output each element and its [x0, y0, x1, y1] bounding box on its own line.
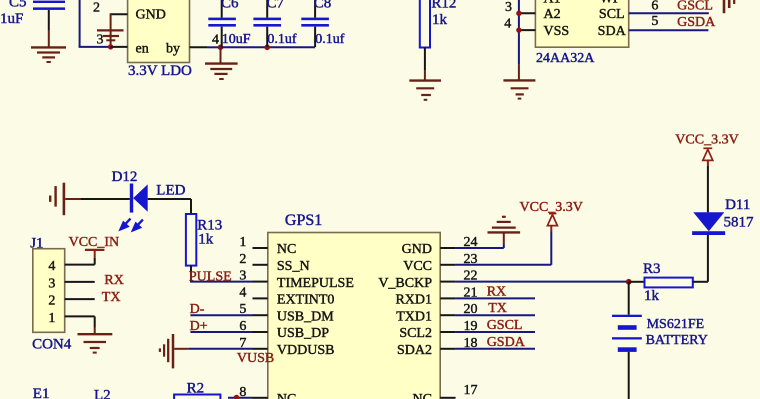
- svg-text:4: 4: [48, 259, 55, 274]
- svg-text:EXTINT0: EXTINT0: [277, 293, 335, 308]
- ground up at pin24: [488, 217, 521, 233]
- svg-text:GSDA: GSDA: [487, 335, 526, 350]
- ground on LDO pin2: [97, 30, 124, 40]
- pin 17 stub: [440, 397, 455, 399]
- svg-text:J1: J1: [30, 236, 43, 252]
- svg-text:GPS1: GPS1: [285, 212, 322, 229]
- svg-text:1k: 1k: [644, 288, 660, 304]
- wire R13 to TIMEPULSE: [190, 266, 192, 282]
- svg-text:SDA2: SDA2: [397, 343, 432, 358]
- svg-text:VUSB: VUSB: [237, 351, 274, 366]
- wire D11 to VCC_3.3V: [707, 160, 709, 212]
- node junction en/gnd: [108, 44, 113, 49]
- svg-text:BATTERY: BATTERY: [646, 333, 708, 348]
- svg-text:2: 2: [239, 252, 246, 267]
- svg-text:USB_DM: USB_DM: [277, 309, 334, 324]
- wire net GSCL right: [456, 331, 535, 333]
- svg-text:6: 6: [651, 0, 658, 13]
- svg-text:1uF: 1uF: [0, 11, 23, 27]
- svg-text:VCC_IN: VCC_IN: [69, 235, 120, 250]
- ground below J1: [78, 334, 113, 352]
- wire en pin stub: [111, 46, 128, 48]
- svg-text:L2: L2: [94, 388, 111, 399]
- wire net VUSB to pin7: [174, 348, 252, 350]
- svg-text:A2: A2: [544, 7, 561, 22]
- ground below 24AA32A: [503, 80, 535, 98]
- node junction pin4: [516, 27, 521, 32]
- svg-text:1: 1: [48, 311, 55, 326]
- svg-text:SCL2: SCL2: [399, 326, 432, 341]
- wire net D+: [190, 331, 252, 333]
- wire net RX: [456, 297, 535, 299]
- svg-text:2: 2: [48, 294, 55, 309]
- svg-text:VCC_3.3V: VCC_3.3V: [520, 200, 583, 215]
- svg-text:RX: RX: [104, 273, 123, 288]
- svg-text:R12: R12: [431, 0, 456, 12]
- node junction pin3: [516, 11, 521, 16]
- svg-text:R3: R3: [643, 261, 661, 277]
- node junction at C7: [264, 45, 270, 51]
- power VCC_3.3V right: [675, 133, 738, 161]
- svg-text:NC: NC: [277, 242, 296, 257]
- svg-text:0.1uf: 0.1uf: [315, 32, 345, 47]
- svg-text:by: by: [166, 41, 180, 56]
- wire bus C6-C7-C8: [221, 46, 316, 48]
- svg-text:V_BCKP: V_BCKP: [378, 276, 432, 291]
- pin 22 stub: [440, 281, 455, 283]
- svg-text:GND: GND: [136, 8, 166, 23]
- svg-text:C6: C6: [221, 0, 239, 11]
- wire net D-: [190, 314, 252, 316]
- svg-text:3: 3: [48, 276, 55, 291]
- svg-text:A1: A1: [544, 0, 561, 7]
- wire R3 to D11: [707, 235, 709, 282]
- ground sideways at pin7: [160, 334, 173, 368]
- svg-text:3.3V LDO: 3.3V LDO: [128, 63, 192, 79]
- wire SDA pin5 net GSDA: [629, 29, 709, 31]
- wire pin22 V_BCKP to R3: [456, 281, 629, 283]
- wire pin8: [228, 397, 253, 399]
- resistor R2: [174, 381, 220, 399]
- svg-text:GSCL: GSCL: [487, 318, 523, 333]
- capacitor C7: [253, 0, 297, 47]
- svg-text:VCC_3.3V: VCC_3.3V: [675, 133, 738, 148]
- power VCC_IN: [69, 235, 120, 264]
- svg-text:SS_N: SS_N: [277, 259, 310, 274]
- svg-text:2: 2: [93, 1, 100, 16]
- resistor R3: [629, 261, 708, 304]
- pin 3 stub: [253, 281, 268, 283]
- svg-text:GSDA: GSDA: [677, 15, 716, 30]
- svg-text:C8: C8: [314, 0, 332, 11]
- pin 5 stub: [253, 314, 268, 316]
- wire C5 to ground: [48, 30, 50, 47]
- ground below C5: [31, 47, 66, 62]
- IC GPS1: [268, 212, 440, 399]
- capacitor C8: [301, 0, 344, 47]
- ground below C6: [205, 64, 238, 79]
- svg-text:TX: TX: [488, 301, 507, 316]
- pin 20 stub: [440, 314, 455, 316]
- svg-text:SDA: SDA: [598, 24, 627, 39]
- svg-text:D+: D+: [190, 319, 208, 334]
- wire net PULSE: [190, 281, 253, 283]
- pin 23 stub: [440, 264, 455, 266]
- ground below R12: [409, 81, 441, 100]
- wire from top into LDO en pin: [79, 0, 112, 47]
- ground sideways top right: [724, 0, 734, 13]
- svg-text:0.1uf: 0.1uf: [267, 32, 297, 47]
- battery MS621FE: [612, 282, 708, 399]
- svg-text:24AA32A: 24AA32A: [536, 51, 595, 66]
- power VCC_3.3V left: [520, 200, 583, 225]
- svg-text:D12: D12: [112, 169, 138, 185]
- wire net TX: [456, 314, 535, 316]
- svg-text:4: 4: [504, 17, 511, 32]
- svg-text:PULSE: PULSE: [189, 269, 232, 284]
- svg-text:D-: D-: [190, 302, 205, 317]
- svg-text:VDDUSB: VDDUSB: [277, 343, 335, 358]
- node junction at C6: [218, 45, 224, 51]
- LED D12: [112, 169, 186, 212]
- svg-text:en: en: [136, 41, 149, 56]
- svg-text:TIMEPULSE: TIMEPULSE: [277, 276, 354, 291]
- svg-text:10uF: 10uF: [222, 32, 251, 47]
- svg-text:5: 5: [651, 14, 658, 29]
- svg-text:1k: 1k: [198, 232, 214, 248]
- svg-text:USB_DP: USB_DP: [277, 326, 329, 341]
- diode D11 5817: [692, 197, 754, 235]
- pin 7 stub: [253, 348, 268, 350]
- resistor R12: [420, 0, 457, 48]
- svg-text:R2: R2: [187, 381, 205, 397]
- wire LDO by pin to C6: [190, 46, 221, 48]
- pin 6 stub: [253, 331, 268, 333]
- IC 24AA32A: [535, 0, 628, 66]
- svg-text:CON4: CON4: [32, 336, 72, 352]
- svg-text:NC: NC: [413, 392, 432, 399]
- svg-text:1k: 1k: [432, 12, 448, 28]
- svg-text:LED: LED: [156, 182, 185, 198]
- wire pin23 to VCC_3.3V: [456, 226, 552, 265]
- pin 24 stub: [440, 247, 455, 249]
- svg-text:VCC: VCC: [403, 259, 432, 274]
- capacitor C6: [208, 0, 251, 47]
- svg-text:C7: C7: [267, 0, 285, 11]
- svg-text:GSCL: GSCL: [677, 0, 713, 14]
- capacitor C5: [0, 0, 65, 30]
- svg-text:GND: GND: [402, 242, 432, 257]
- wire R12 to ground: [424, 48, 426, 81]
- pin 8 stub: [253, 397, 268, 399]
- LED arrows: [121, 219, 143, 231]
- wire net GSDA right: [456, 348, 535, 350]
- wire pin24 to ground: [456, 233, 504, 249]
- svg-text:C5: C5: [9, 0, 27, 10]
- svg-text:E1: E1: [33, 386, 50, 399]
- wire J1 pin2 net TX: [65, 298, 95, 300]
- svg-text:TX: TX: [102, 290, 121, 305]
- wire J1 pin4: [65, 264, 95, 266]
- svg-text:MS621FE: MS621FE: [647, 317, 705, 332]
- svg-text:VSS: VSS: [544, 24, 570, 39]
- pin 2 stub: [253, 264, 268, 266]
- svg-text:SCL: SCL: [599, 7, 625, 22]
- svg-text:TXD1: TXD1: [396, 309, 432, 324]
- svg-text:WP: WP: [600, 0, 621, 7]
- svg-text:RXD1: RXD1: [395, 293, 432, 308]
- pin 19 stub: [440, 331, 455, 333]
- wire C6 junction to ground: [220, 47, 222, 63]
- svg-text:4: 4: [212, 32, 219, 47]
- svg-text:RX: RX: [487, 284, 506, 299]
- svg-text:3: 3: [239, 269, 246, 284]
- svg-text:3: 3: [97, 33, 104, 48]
- svg-text:D11: D11: [725, 197, 750, 213]
- svg-text:NC: NC: [277, 392, 296, 399]
- wire bus to ground: [518, 65, 520, 80]
- node junction pin8: [234, 395, 240, 399]
- resistor R13: [186, 214, 222, 266]
- wire left bus into 24AA32A: [518, 0, 520, 65]
- svg-text:5817: 5817: [724, 214, 755, 230]
- wire ground to LED cathode: [65, 198, 130, 200]
- wire LED anode to R13: [148, 199, 191, 214]
- wire J1 pin1 to ground: [65, 316, 95, 333]
- wire SCL pin6 net GSCL: [629, 12, 709, 14]
- svg-text:4: 4: [239, 285, 246, 300]
- svg-text:3: 3: [505, 0, 512, 15]
- pin 4 stub: [253, 297, 268, 299]
- pin 3 stub: [519, 12, 536, 14]
- pin 18 stub: [440, 348, 455, 350]
- pin 1 stub: [253, 247, 268, 249]
- wire LDO pin2 to ground: [111, 13, 128, 47]
- pin 21 stub: [440, 297, 455, 299]
- wire J1 pin3 net RX: [65, 281, 95, 283]
- ground sideways at D12: [50, 183, 64, 216]
- connector J1: [30, 236, 72, 353]
- pin 4 stub: [519, 29, 536, 31]
- op-amp U? LDO regulator box: [128, 0, 192, 79]
- svg-text:1: 1: [239, 235, 246, 250]
- svg-text:17: 17: [464, 383, 478, 398]
- node junction R3 battery: [626, 279, 632, 285]
